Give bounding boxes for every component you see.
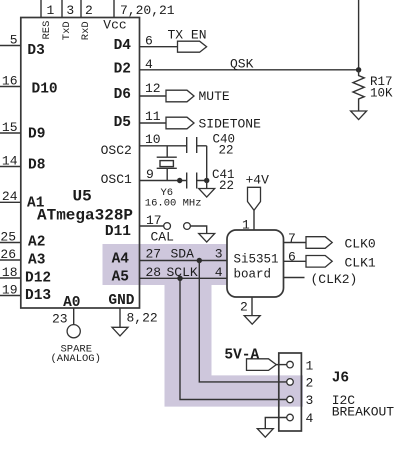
svg-text:SCLK: SCLK <box>167 265 198 280</box>
svg-text:D13: D13 <box>25 288 51 304</box>
wire pin25 A2 <box>0 242 21 244</box>
svg-text:23: 23 <box>52 312 68 327</box>
svg-text:SIDETONE: SIDETONE <box>199 116 262 131</box>
svg-text:GND: GND <box>108 293 134 309</box>
wire pin2 RxD top <box>80 0 82 18</box>
wire QSK vertical to top <box>358 0 360 70</box>
J6 pin4 pad <box>287 414 294 421</box>
svg-text:7: 7 <box>288 231 296 246</box>
ground below C40/C41 <box>199 189 215 198</box>
svg-text:11: 11 <box>145 109 161 124</box>
svg-text:U5: U5 <box>73 188 92 206</box>
svg-text:+4V: +4V <box>246 173 270 188</box>
svg-text:6: 6 <box>288 249 296 264</box>
svg-text:A3: A3 <box>28 253 45 269</box>
svg-text:SDA: SDA <box>171 247 195 262</box>
wire pin9 OSC1 <box>140 180 207 182</box>
svg-text:16: 16 <box>2 74 18 89</box>
svg-text:D5: D5 <box>114 115 131 131</box>
svg-text:(CLK2): (CLK2) <box>311 272 358 287</box>
connector J6 body <box>279 353 302 431</box>
svg-text:12: 12 <box>145 81 161 96</box>
svg-text:17: 17 <box>146 213 162 228</box>
svg-text:9: 9 <box>146 167 154 182</box>
wire pin11 D5 to SIDETONE <box>140 122 167 124</box>
svg-text:8,22: 8,22 <box>127 311 158 326</box>
svg-text:2: 2 <box>306 376 314 391</box>
svg-text:22: 22 <box>219 144 234 158</box>
wire pin18 D12 <box>0 277 21 279</box>
flag MUTE <box>166 90 194 102</box>
svg-text:(ANALOG): (ANALOG) <box>51 353 101 365</box>
flag CLK1 <box>306 256 332 268</box>
flag TX EN <box>178 41 207 52</box>
svg-text:6: 6 <box>145 34 153 49</box>
J6 pin2 pad <box>287 379 294 386</box>
svg-text:4: 4 <box>215 265 223 280</box>
svg-text:OSC2: OSC2 <box>101 143 132 158</box>
wire pin10 OSC2 <box>140 145 207 147</box>
IC U5 body <box>21 18 140 309</box>
svg-text:D12: D12 <box>25 271 51 287</box>
svg-text:D2: D2 <box>114 62 131 78</box>
wire pin24 A1 <box>0 201 21 203</box>
wire Si5351 pin7 to CLK0 <box>284 242 307 244</box>
svg-text:19: 19 <box>2 283 18 298</box>
junction SDA <box>197 258 202 263</box>
svg-text:26: 26 <box>0 247 16 262</box>
svg-text:14: 14 <box>2 154 18 169</box>
svg-text:28: 28 <box>146 265 162 280</box>
J6 pin1 pad <box>287 361 294 368</box>
svg-text:16.00 MHz: 16.00 MHz <box>145 197 202 209</box>
wire pin28 A5 SCLK net <box>140 277 228 279</box>
svg-text:22: 22 <box>219 179 234 193</box>
wire Si5351 pin6 to CLK1 <box>284 260 307 262</box>
wire pin3 TxD top <box>61 0 63 18</box>
wire pin4 D2 QSK net <box>140 69 359 71</box>
svg-text:CLK0: CLK0 <box>345 237 376 252</box>
svg-text:MUTE: MUTE <box>199 89 230 104</box>
svg-text:D8: D8 <box>28 158 45 174</box>
svg-text:CLK1: CLK1 <box>345 255 376 270</box>
wire GND pin to ground <box>119 308 121 327</box>
svg-text:24: 24 <box>2 189 18 204</box>
junction SCLK <box>177 276 182 281</box>
ground below GND pin <box>112 327 128 336</box>
wire pin17 D11 to CAL jumper <box>140 225 164 227</box>
svg-text:2: 2 <box>240 300 248 315</box>
wire cap common to ground <box>206 146 208 189</box>
svg-text:RxD: RxD <box>80 21 92 40</box>
svg-text:1: 1 <box>47 3 55 18</box>
svg-text:2: 2 <box>85 3 93 18</box>
svg-text:18: 18 <box>2 265 18 280</box>
svg-text:25: 25 <box>0 230 16 245</box>
svg-text:15: 15 <box>2 120 18 135</box>
wire pin5 D3 <box>0 45 21 47</box>
svg-text:10K: 10K <box>370 86 393 100</box>
svg-text:D9: D9 <box>28 126 45 142</box>
svg-text:A0: A0 <box>63 295 80 311</box>
wire 5V-A to J6 pin1 <box>276 364 286 366</box>
flag SIDETONE <box>166 117 194 129</box>
svg-text:4: 4 <box>306 411 314 426</box>
flag CLK0 <box>306 237 332 249</box>
svg-text:A5: A5 <box>112 270 129 286</box>
wire SDA drop to J6 pin2 <box>199 261 286 382</box>
capacitor C40 <box>187 137 197 153</box>
capacitor C41 <box>187 173 197 189</box>
crystal Y6 <box>157 146 177 181</box>
resistor R17 <box>353 70 364 111</box>
wire pin19 D13 <box>0 295 21 297</box>
jumper CAL pin B <box>184 223 191 230</box>
svg-text:BREAKOUT: BREAKOUT <box>332 404 395 419</box>
spare analog pad <box>67 325 80 338</box>
wire pin27 A4 SDA net <box>140 260 228 262</box>
svg-text:J6: J6 <box>332 371 349 387</box>
highlighted I2C net (SDA/SCLK to breakout) <box>103 244 304 407</box>
wire Si5351 pin2 to ground <box>251 297 253 316</box>
flag 5V-A <box>247 359 277 371</box>
svg-text:board: board <box>234 267 272 281</box>
wire Si5351 CLK2 stub <box>284 277 305 279</box>
svg-text:ATmega328P: ATmega328P <box>37 207 133 225</box>
junction C41/ground <box>204 178 209 183</box>
svg-text:1: 1 <box>306 358 314 373</box>
ground below J6 <box>257 429 273 438</box>
svg-text:10: 10 <box>145 132 161 147</box>
wire CAL to ground <box>190 226 206 234</box>
svg-text:QSK: QSK <box>230 57 254 72</box>
svg-text:4: 4 <box>145 57 153 72</box>
wire VCC top <box>113 0 115 18</box>
wire SCLK drop to J6 pin3 <box>180 278 287 399</box>
svg-text:3: 3 <box>215 247 223 262</box>
wire A0 to spare pad <box>73 308 75 325</box>
wire J6 pin4 to ground <box>265 418 286 429</box>
svg-text:5: 5 <box>10 33 18 48</box>
svg-text:1: 1 <box>242 218 250 233</box>
svg-text:5V-A: 5V-A <box>224 348 259 364</box>
wire pin1 RES top <box>40 0 42 18</box>
svg-text:D3: D3 <box>27 43 44 59</box>
svg-text:A2: A2 <box>28 235 45 251</box>
ground below R17 <box>351 111 367 120</box>
svg-text:D11: D11 <box>105 224 131 240</box>
junction crystal/OSC1 <box>177 178 182 183</box>
wire pin14 D8 <box>0 166 21 168</box>
svg-text:D6: D6 <box>114 87 131 103</box>
svg-text:27: 27 <box>146 247 162 262</box>
svg-text:Si5351: Si5351 <box>234 253 279 267</box>
wire pin26 A3 <box>0 259 21 261</box>
svg-text:CAL: CAL <box>151 229 174 244</box>
jumper CAL pin A <box>164 223 171 230</box>
wire +4V to Si5351 pin1 <box>253 210 255 230</box>
svg-text:RES: RES <box>41 21 53 40</box>
ground below CAL <box>199 234 215 243</box>
ground below Si5351 <box>244 316 260 325</box>
svg-text:3: 3 <box>306 393 314 408</box>
J6 pin3 pad <box>287 396 294 403</box>
svg-text:OSC1: OSC1 <box>101 172 132 187</box>
Si5351 board module <box>227 230 284 297</box>
wire pin6 D4 to TX EN <box>140 46 178 48</box>
svg-text:Vcc: Vcc <box>103 17 126 32</box>
svg-text:D10: D10 <box>32 82 58 98</box>
wire pin15 D9 <box>0 132 21 134</box>
svg-text:TX EN: TX EN <box>168 28 207 43</box>
junction QSK/R17 <box>356 67 361 72</box>
wire pin12 D6 to MUTE <box>140 95 167 97</box>
svg-text:3: 3 <box>66 3 74 18</box>
svg-text:D4: D4 <box>114 38 132 54</box>
power +4V symbol <box>248 187 261 210</box>
svg-text:A4: A4 <box>112 252 130 268</box>
wire pin16 D10 <box>0 86 21 88</box>
svg-text:TxD: TxD <box>61 21 73 40</box>
svg-text:7,20,21: 7,20,21 <box>120 3 175 18</box>
